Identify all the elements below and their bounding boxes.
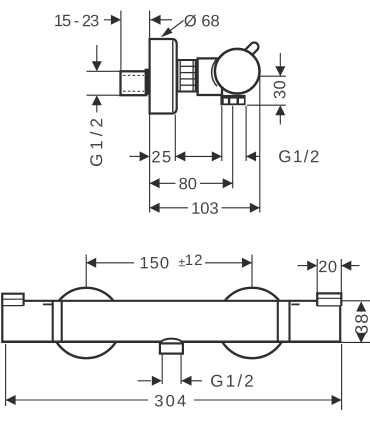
svg-text:25: 25 <box>151 148 172 166</box>
svg-text:20: 20 <box>318 258 337 276</box>
svg-text:G1/2: G1/2 <box>278 147 320 166</box>
svg-text:Ø 68: Ø 68 <box>184 12 220 30</box>
svg-text:G1/2: G1/2 <box>87 114 106 167</box>
svg-text:80: 80 <box>179 175 197 193</box>
svg-text:304: 304 <box>154 392 188 410</box>
svg-text:150: 150 <box>140 254 171 272</box>
svg-text:12: 12 <box>185 252 204 269</box>
svg-text:38: 38 <box>352 313 370 335</box>
svg-text:G1/2: G1/2 <box>210 372 256 391</box>
svg-text:15 - 23: 15 - 23 <box>54 12 99 30</box>
svg-text:103: 103 <box>191 200 219 218</box>
svg-text:30: 30 <box>271 80 289 99</box>
